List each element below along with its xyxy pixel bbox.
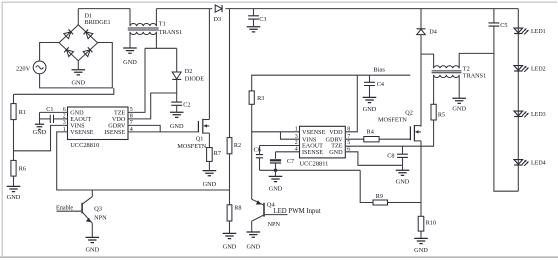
svg-text:GND: GND [203,181,217,188]
resistor R6 [11,160,26,176]
svg-text:GND: GND [396,179,410,186]
transformer T2 TRANS1 [421,53,494,79]
wire : U1 GND pin6 [40,111,68,113]
wire : R5 to TZE line [433,120,435,146]
wire : TZE riser [128,48,145,112]
resistor R10 [418,216,436,231]
svg-text:R4: R4 [367,129,374,136]
node junction [274,169,277,172]
svg-text:220V: 220V [16,65,31,72]
resistor R3 [249,91,264,104]
svg-text:GND: GND [170,123,184,130]
svg-text:VDD: VDD [329,129,343,136]
resistor R7 [207,148,221,162]
svg-text:R10: R10 [426,219,436,226]
svg-text:LED2: LED2 [531,66,546,72]
svg-text:MOSFETN: MOSFETN [177,143,206,150]
capacitor C2 [171,93,190,112]
ground : C6/C7 node [269,170,283,192]
wire : U1 VINS pin3 to R1/R6 divider [14,125,68,150]
svg-text:Q3: Q3 [94,206,102,213]
wire : U2 VDD pin8 to Bias [346,75,357,132]
svg-text:R9: R9 [376,193,383,200]
ground : C1/GND pin node [33,112,47,135]
transistor Q1 MOSFETN [177,119,209,150]
capacitor C6 [254,146,264,171]
ground : under C8 [396,165,410,185]
svg-text:C1: C1 [46,106,53,113]
LED3 [514,111,546,118]
diode D4 [417,9,437,36]
ground [71,61,85,87]
svg-text:D3: D3 [214,16,222,23]
svg-text:D2: D2 [185,68,193,75]
wire [40,43,59,62]
svg-text:GND: GND [71,80,85,87]
svg-text:R1: R1 [19,109,26,116]
svg-text:LED1: LED1 [531,29,546,35]
wire [229,154,231,205]
svg-text:5: 5 [347,140,350,146]
svg-text:GND: GND [363,106,377,113]
wire : R1 top feeder [14,88,114,94]
svg-text:UCC28811: UCC28811 [300,160,329,167]
wire : U1 ISENSE pin4 / gate line [128,131,198,133]
resistor R9 [373,193,388,205]
ground : under R6 [7,176,21,201]
svg-text:C5: C5 [500,22,507,29]
capacitor C5 [489,9,508,54]
wire [13,120,15,161]
wire : U2 VINS pin3 [281,132,300,139]
wire [40,43,113,88]
wire [379,138,410,140]
capacitor C3 [248,9,266,27]
svg-text:GND: GND [414,247,428,254]
ground : under R8 [223,221,237,251]
svg-text:VSENSE: VSENSE [70,129,94,136]
svg-text:ISENSE: ISENSE [104,129,125,136]
node Enable [56,204,82,211]
ground : Q3 emitter [85,223,99,253]
svg-text:GND: GND [269,186,283,193]
svg-text:LED PWM Input: LED PWM Input [274,208,321,215]
svg-text:VSENSE: VSENSE [302,129,326,136]
wire : Q2 source sense line [420,146,422,216]
svg-text:NPN: NPN [268,221,281,228]
wire : Q3 collector [91,190,93,197]
svg-text:GND: GND [7,194,21,201]
wire : U2 VSENSE pin1 [252,131,300,133]
transformer T1 TRANS1 [128,9,182,36]
svg-text:GND: GND [85,246,99,253]
IC U1 UCC28810 [63,107,133,149]
svg-text:TRANS1: TRANS1 [159,29,182,36]
svg-text:GND: GND [329,149,343,156]
capacitor C1 [40,106,68,123]
svg-text:GND: GND [246,244,260,251]
ground : under C3 [247,27,261,32]
svg-text:DIODE: DIODE [185,76,204,83]
svg-text:Bias: Bias [373,66,385,73]
svg-text:NPN: NPN [94,215,107,222]
svg-text:ISENSE: ISENSE [302,149,323,156]
LED1 [514,28,546,35]
svg-text:GND: GND [223,244,237,251]
wire : U1 VSENSE pin1 down to bus [57,132,230,190]
svg-text:C7: C7 [287,158,294,165]
capacitor C7 [270,152,294,171]
wire : R3 to VSENSE line / Q4 [251,104,253,199]
wire [388,202,422,204]
svg-text:R6: R6 [19,166,26,173]
diode D3 [214,5,223,23]
wire [156,8,212,10]
svg-text:Q1: Q1 [196,135,204,142]
svg-text:R2: R2 [234,142,241,149]
LED4 [514,160,546,167]
ground : under C4 [363,97,377,113]
wire : D2 cathode node to VDO [176,80,178,93]
resistor R1 [11,94,26,119]
svg-text:8: 8 [130,114,133,120]
svg-text:R5: R5 [438,111,445,118]
wire : Q1 drain riser [208,9,210,120]
wire [225,8,518,10]
svg-text:GND: GND [123,59,137,66]
AC source 220V [16,61,46,74]
resistor R4 [364,129,379,142]
svg-text:C4: C4 [377,81,384,88]
wire : Bias line [252,75,411,91]
wire : U2 GDRV pin7 [346,138,364,140]
wire : T1 secondary node [155,32,157,48]
ground : under C2 [170,112,184,130]
svg-text:C6: C6 [254,147,261,154]
svg-text:MOSFETN: MOSFETN [378,116,407,123]
svg-text:R7: R7 [214,150,221,157]
svg-text:R3: R3 [257,95,264,102]
wire : D4 to Q2 drain [420,35,422,127]
wire : gnd bus down to R9 [360,170,373,202]
svg-text:GND: GND [452,106,466,113]
wire : T2 secondary left to R5 [433,75,435,104]
ground : under R10 [414,231,428,254]
node LED PWM Input [264,208,321,215]
wire : Q1 source to R7 [208,133,210,148]
transistor Q4 NPN [252,199,281,228]
wire : U2 GND pin6 [346,152,403,166]
svg-text:C3: C3 [259,16,266,23]
IC U2 UCC28811 [295,126,350,167]
svg-text:C2: C2 [183,101,190,108]
resistor R8 [227,205,241,222]
svg-text:LED4: LED4 [531,160,546,166]
LED2 [514,66,546,73]
bridge rectifier D1 BRIDGE1 [59,13,111,61]
wire : U2 ISENSE pin4 [276,151,300,153]
svg-text:UCC28810: UCC28810 [70,142,99,149]
svg-text:5: 5 [130,107,133,113]
ground : T2 secondary right [452,75,466,113]
ground : T1 secondary left [123,32,137,66]
wire : ground bus under U2 [260,169,361,171]
wire : bridge output top rail [77,9,79,25]
wire : rail to R2 [229,9,231,138]
svg-text:BRIDGE1: BRIDGE1 [85,19,111,26]
capacitor C4 [364,75,384,97]
resistor R5 [431,104,445,120]
wire : U1 GDRV pin7 [128,125,160,131]
svg-text:Q2: Q2 [405,109,413,116]
svg-text:Enable: Enable [56,204,73,211]
wire : output return [494,53,518,191]
transistor Q3 NPN [82,197,107,224]
capacitor C8 [387,146,408,165]
svg-text:TRANS1: TRANS1 [463,72,486,79]
svg-text:T1: T1 [159,20,166,27]
wire : U2 TZE pin5 [346,145,434,147]
svg-text:C8: C8 [387,152,394,159]
ground : under R7 [203,161,217,187]
svg-text:R8: R8 [234,205,241,212]
transistor Q2 MOSFETN [378,109,421,141]
svg-text:LED3: LED3 [531,112,546,118]
svg-text:GND: GND [33,129,47,136]
resistor R2 [227,138,241,154]
diode D2 DIODE [172,48,204,82]
wire : LED chain [517,9,519,192]
wire : U2 EAOUT pin2 [260,145,300,147]
ground : Q4 emitter [246,221,260,250]
wire : Q2 source [420,141,422,146]
svg-text:D4: D4 [429,29,437,36]
